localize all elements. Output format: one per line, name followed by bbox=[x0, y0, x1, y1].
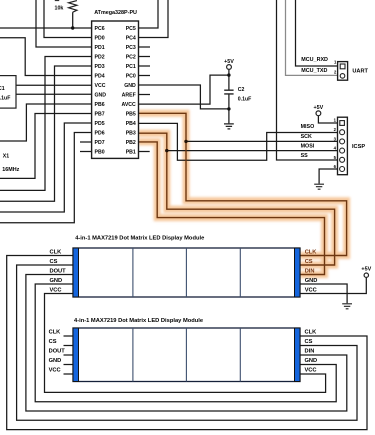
svg-text:PD3: PD3 bbox=[95, 64, 105, 70]
svg-text:0.1uF: 0.1uF bbox=[238, 96, 252, 102]
wire GND to C1 bbox=[16, 93, 92, 95]
svg-text:CLK: CLK bbox=[49, 330, 62, 336]
wire MCU_TXD to UART pin2 (gray) bbox=[286, 0, 341, 75]
wire VCC to C1 bbox=[16, 84, 92, 86]
svg-text:ICSP: ICSP bbox=[352, 144, 365, 150]
svg-text:AREF: AREF bbox=[122, 92, 136, 98]
svg-text:VCC: VCC bbox=[49, 368, 61, 374]
ICSP pin 1 square bbox=[340, 121, 345, 126]
wire resistor bottom lead bbox=[72, 12, 74, 28]
module 2 segment dividers bbox=[133, 328, 240, 382]
junction dot SCK branch bbox=[184, 140, 187, 143]
ICSP pin 4 circle bbox=[340, 148, 345, 153]
wire chain DOUT to module2 DIN bbox=[26, 275, 347, 412]
svg-text:SS: SS bbox=[301, 153, 309, 159]
connector J1 UART body bbox=[338, 62, 348, 81]
ICSP pin 3 circle bbox=[340, 139, 345, 144]
wire PC4 to top edge bbox=[139, 0, 169, 38]
svg-text:SCK: SCK bbox=[301, 134, 312, 140]
svg-text:CS: CS bbox=[305, 259, 313, 265]
pin stub PC2 bbox=[139, 56, 151, 58]
power +5V (ICSP) bbox=[316, 111, 321, 116]
module 2 left header bar bbox=[73, 328, 79, 382]
wire MCU_RXD to UART pin1 bbox=[296, 0, 341, 66]
svg-text:6: 6 bbox=[334, 164, 337, 169]
svg-text:ATmega328P-PU: ATmega328P-PU bbox=[94, 10, 137, 16]
svg-text:PB5: PB5 bbox=[126, 111, 136, 117]
wire PD2 to left edge bbox=[0, 57, 92, 191]
svg-text:PD4: PD4 bbox=[95, 73, 105, 79]
pin stub module2 GND left bbox=[64, 364, 74, 366]
pin stub PC3 bbox=[139, 46, 151, 48]
junction dot reset/R1 bbox=[71, 26, 74, 29]
svg-text:MISO: MISO bbox=[301, 124, 315, 130]
connector J2 ICSP body bbox=[338, 117, 348, 175]
svg-text:PB2: PB2 bbox=[126, 140, 136, 146]
svg-text:PC5: PC5 bbox=[126, 26, 136, 32]
svg-text:AVCC: AVCC bbox=[121, 102, 136, 108]
module 1 left header bar bbox=[73, 248, 79, 297]
svg-text:+5V: +5V bbox=[314, 105, 324, 111]
wire PB6 to crystal X1 bbox=[0, 104, 92, 141]
capacitor C1 body bbox=[0, 76, 16, 109]
svg-text:10k: 10k bbox=[55, 6, 64, 12]
svg-text:MOSI: MOSI bbox=[301, 144, 315, 150]
chip left pin labels bbox=[95, 26, 107, 156]
svg-text:0.1uF: 0.1uF bbox=[0, 95, 10, 101]
svg-text:DIN: DIN bbox=[305, 349, 315, 355]
svg-text:VCC: VCC bbox=[305, 288, 317, 294]
svg-text:CS: CS bbox=[49, 339, 57, 345]
ICSP pin 6 circle bbox=[340, 167, 345, 172]
ground (below C2) bbox=[224, 124, 234, 129]
ICSP pin numbers bbox=[334, 117, 337, 169]
net core PB3-CS bbox=[139, 133, 335, 265]
module 1 right pin labels bbox=[305, 250, 318, 294]
svg-text:GND: GND bbox=[49, 358, 62, 364]
svg-text:PB0: PB0 bbox=[95, 149, 105, 155]
wire PD6 to left edge bbox=[0, 133, 92, 223]
capacitor C2 plates bbox=[224, 90, 233, 94]
pin stub module2 DOUT left bbox=[64, 354, 74, 356]
svg-text:GND: GND bbox=[95, 92, 107, 98]
svg-text:DOUT: DOUT bbox=[49, 349, 66, 355]
svg-text:PC3: PC3 bbox=[126, 45, 136, 51]
pin stub module2 CLK left bbox=[64, 335, 74, 337]
svg-text:PD5: PD5 bbox=[95, 121, 105, 127]
svg-text:VCC: VCC bbox=[95, 83, 106, 89]
pin stub PC0 bbox=[139, 75, 151, 77]
module 2 right header bar bbox=[295, 328, 301, 382]
wire chain GND module1 to module2 bbox=[35, 284, 336, 402]
IC U1 ATmega328P-PU body bbox=[92, 21, 139, 158]
net highlight glow PB2-DIN bbox=[139, 142, 325, 275]
wire module1 VCC to +5V bbox=[300, 277, 366, 293]
svg-text:PC1: PC1 bbox=[126, 64, 136, 70]
junction dot GND/C2 bbox=[227, 107, 230, 110]
svg-text:3: 3 bbox=[334, 136, 337, 141]
wire MOSI branch to ICSP bbox=[167, 150, 340, 152]
svg-text:DOUT: DOUT bbox=[50, 269, 67, 275]
svg-text:DIN: DIN bbox=[305, 269, 315, 275]
pin stub PD7 bbox=[80, 141, 92, 143]
pin stub PB1 bbox=[139, 151, 150, 153]
svg-text:GND: GND bbox=[124, 83, 136, 89]
wire module1 GND to ground bbox=[300, 284, 347, 303]
wire chain CS module1-left to module2-right bbox=[17, 265, 357, 420]
svg-text:PD6: PD6 bbox=[95, 130, 105, 136]
pin stub PB0 bbox=[80, 151, 92, 153]
wire PB7 to crystal X1 bbox=[0, 114, 92, 179]
svg-text:PD2: PD2 bbox=[95, 54, 105, 60]
svg-text:GND: GND bbox=[305, 358, 318, 364]
wire +5V to C2 top bbox=[228, 70, 230, 90]
wire SCK branch to ICSP bbox=[186, 140, 339, 142]
svg-text:4: 4 bbox=[334, 146, 337, 151]
net core PB5-CLK bbox=[139, 113, 347, 255]
svg-text:+5V: +5V bbox=[224, 59, 234, 65]
svg-text:PD1: PD1 bbox=[95, 45, 105, 51]
module 2 right pin labels bbox=[305, 330, 318, 374]
svg-text:PC2: PC2 bbox=[126, 54, 136, 60]
UART pin 2 circle bbox=[340, 74, 345, 79]
svg-text:VCC: VCC bbox=[305, 368, 317, 374]
power +5V (near C2) bbox=[227, 65, 232, 70]
svg-text:MCU_TXD: MCU_TXD bbox=[301, 68, 327, 74]
display module 2 body bbox=[73, 328, 300, 382]
svg-text:C2: C2 bbox=[238, 87, 245, 93]
svg-text:4-in-1 MAX7219 Dot Matrix LED: 4-in-1 MAX7219 Dot Matrix LED Display Mo… bbox=[75, 236, 204, 242]
svg-text:CLK: CLK bbox=[50, 250, 63, 256]
wire ICSP pin6 to ground bbox=[319, 169, 339, 184]
junction dot +5V/AVCC/C2 bbox=[227, 73, 230, 76]
junction dot MOSI branch bbox=[165, 149, 168, 152]
svg-text:PC0: PC0 bbox=[126, 73, 136, 79]
ground (module1) bbox=[342, 304, 352, 309]
svg-text:C1: C1 bbox=[0, 86, 5, 92]
svg-text:+5V: +5V bbox=[361, 267, 371, 273]
wire PD3 to left edge bbox=[0, 66, 92, 201]
wire PD1 from top edge bbox=[36, 0, 92, 47]
svg-text:1: 1 bbox=[334, 60, 337, 65]
svg-text:CS: CS bbox=[50, 259, 58, 265]
pin stub module2 VCC left bbox=[64, 373, 74, 375]
svg-text:GND: GND bbox=[305, 278, 318, 284]
net core PB2-DIN bbox=[139, 142, 325, 275]
svg-text:2: 2 bbox=[334, 127, 337, 132]
wire AVCC to +5V node bbox=[139, 75, 229, 104]
svg-text:PD0: PD0 bbox=[95, 35, 105, 41]
wire PB4 to ICSP MISO bbox=[139, 123, 340, 160]
wire C2 bottom to ground bbox=[228, 95, 230, 124]
ICSP pin 2 circle bbox=[340, 130, 345, 135]
svg-text:1: 1 bbox=[334, 117, 337, 122]
ICSP pin 5 circle bbox=[340, 157, 345, 162]
wire PD0 from top edge bbox=[44, 0, 92, 38]
pin stub AREF bbox=[139, 94, 151, 96]
svg-text:X1: X1 bbox=[3, 153, 9, 159]
svg-text:5: 5 bbox=[334, 155, 337, 160]
svg-text:MCU_RXD: MCU_RXD bbox=[301, 57, 328, 63]
display module 1 body bbox=[73, 248, 300, 297]
svg-text:4-in-1 MAX7219 Dot Matrix LED: 4-in-1 MAX7219 Dot Matrix LED Display Mo… bbox=[74, 318, 203, 324]
module 1 segment dividers bbox=[133, 248, 240, 297]
wire chain VCC module1 to module2 bbox=[45, 294, 326, 393]
svg-text:CLK: CLK bbox=[305, 330, 318, 336]
R1 label fragment cut at top bbox=[55, 0, 59, 1]
pin stub PC1 bbox=[139, 65, 151, 67]
wire SS from top edge to ICSP bbox=[277, 0, 340, 160]
wire PD5 to left edge bbox=[0, 123, 92, 212]
svg-text:GND: GND bbox=[50, 278, 63, 284]
wire RESET line bbox=[0, 27, 92, 29]
resistor R1 (10k) zigzag bbox=[69, 1, 77, 13]
chip right pin labels bbox=[121, 26, 136, 156]
orange net cores bbox=[139, 113, 347, 274]
pin stub module2 CS left bbox=[64, 345, 74, 347]
power +5V (module1) bbox=[364, 273, 368, 277]
net highlight glow PB5-CLK bbox=[139, 113, 347, 274]
wire PD4 from left edge bbox=[0, 38, 92, 76]
svg-text:PB4: PB4 bbox=[126, 121, 136, 127]
ground (ICSP) bbox=[314, 184, 324, 189]
svg-text:CLK: CLK bbox=[305, 250, 318, 256]
svg-text:PC6: PC6 bbox=[95, 26, 105, 32]
wire GND to C2 ground node bbox=[139, 85, 229, 109]
module 1 right header bar bbox=[295, 248, 301, 297]
svg-text:VCC: VCC bbox=[50, 288, 62, 294]
svg-text:PD7: PD7 bbox=[95, 140, 105, 146]
svg-text:PB7: PB7 bbox=[95, 111, 105, 117]
svg-text:PB1: PB1 bbox=[126, 149, 136, 155]
wire chain CLK module1-left to module2-right bbox=[7, 256, 367, 430]
wire ICSP +5V to pin1 bbox=[318, 116, 339, 123]
svg-text:2: 2 bbox=[334, 70, 337, 75]
wire PC5 to top edge bbox=[139, 0, 159, 28]
module 2 left pin labels bbox=[49, 330, 66, 374]
svg-text:CS: CS bbox=[305, 339, 313, 345]
svg-text:UART: UART bbox=[352, 68, 368, 74]
svg-text:PC4: PC4 bbox=[126, 35, 136, 41]
module 1 left pin labels bbox=[50, 250, 67, 294]
svg-text:16MHz: 16MHz bbox=[2, 167, 19, 173]
net highlight glow PB3-CS bbox=[139, 133, 335, 265]
UART pin 1 square bbox=[340, 64, 345, 69]
svg-text:PB3: PB3 bbox=[126, 130, 136, 136]
svg-text:PB6: PB6 bbox=[95, 102, 105, 108]
